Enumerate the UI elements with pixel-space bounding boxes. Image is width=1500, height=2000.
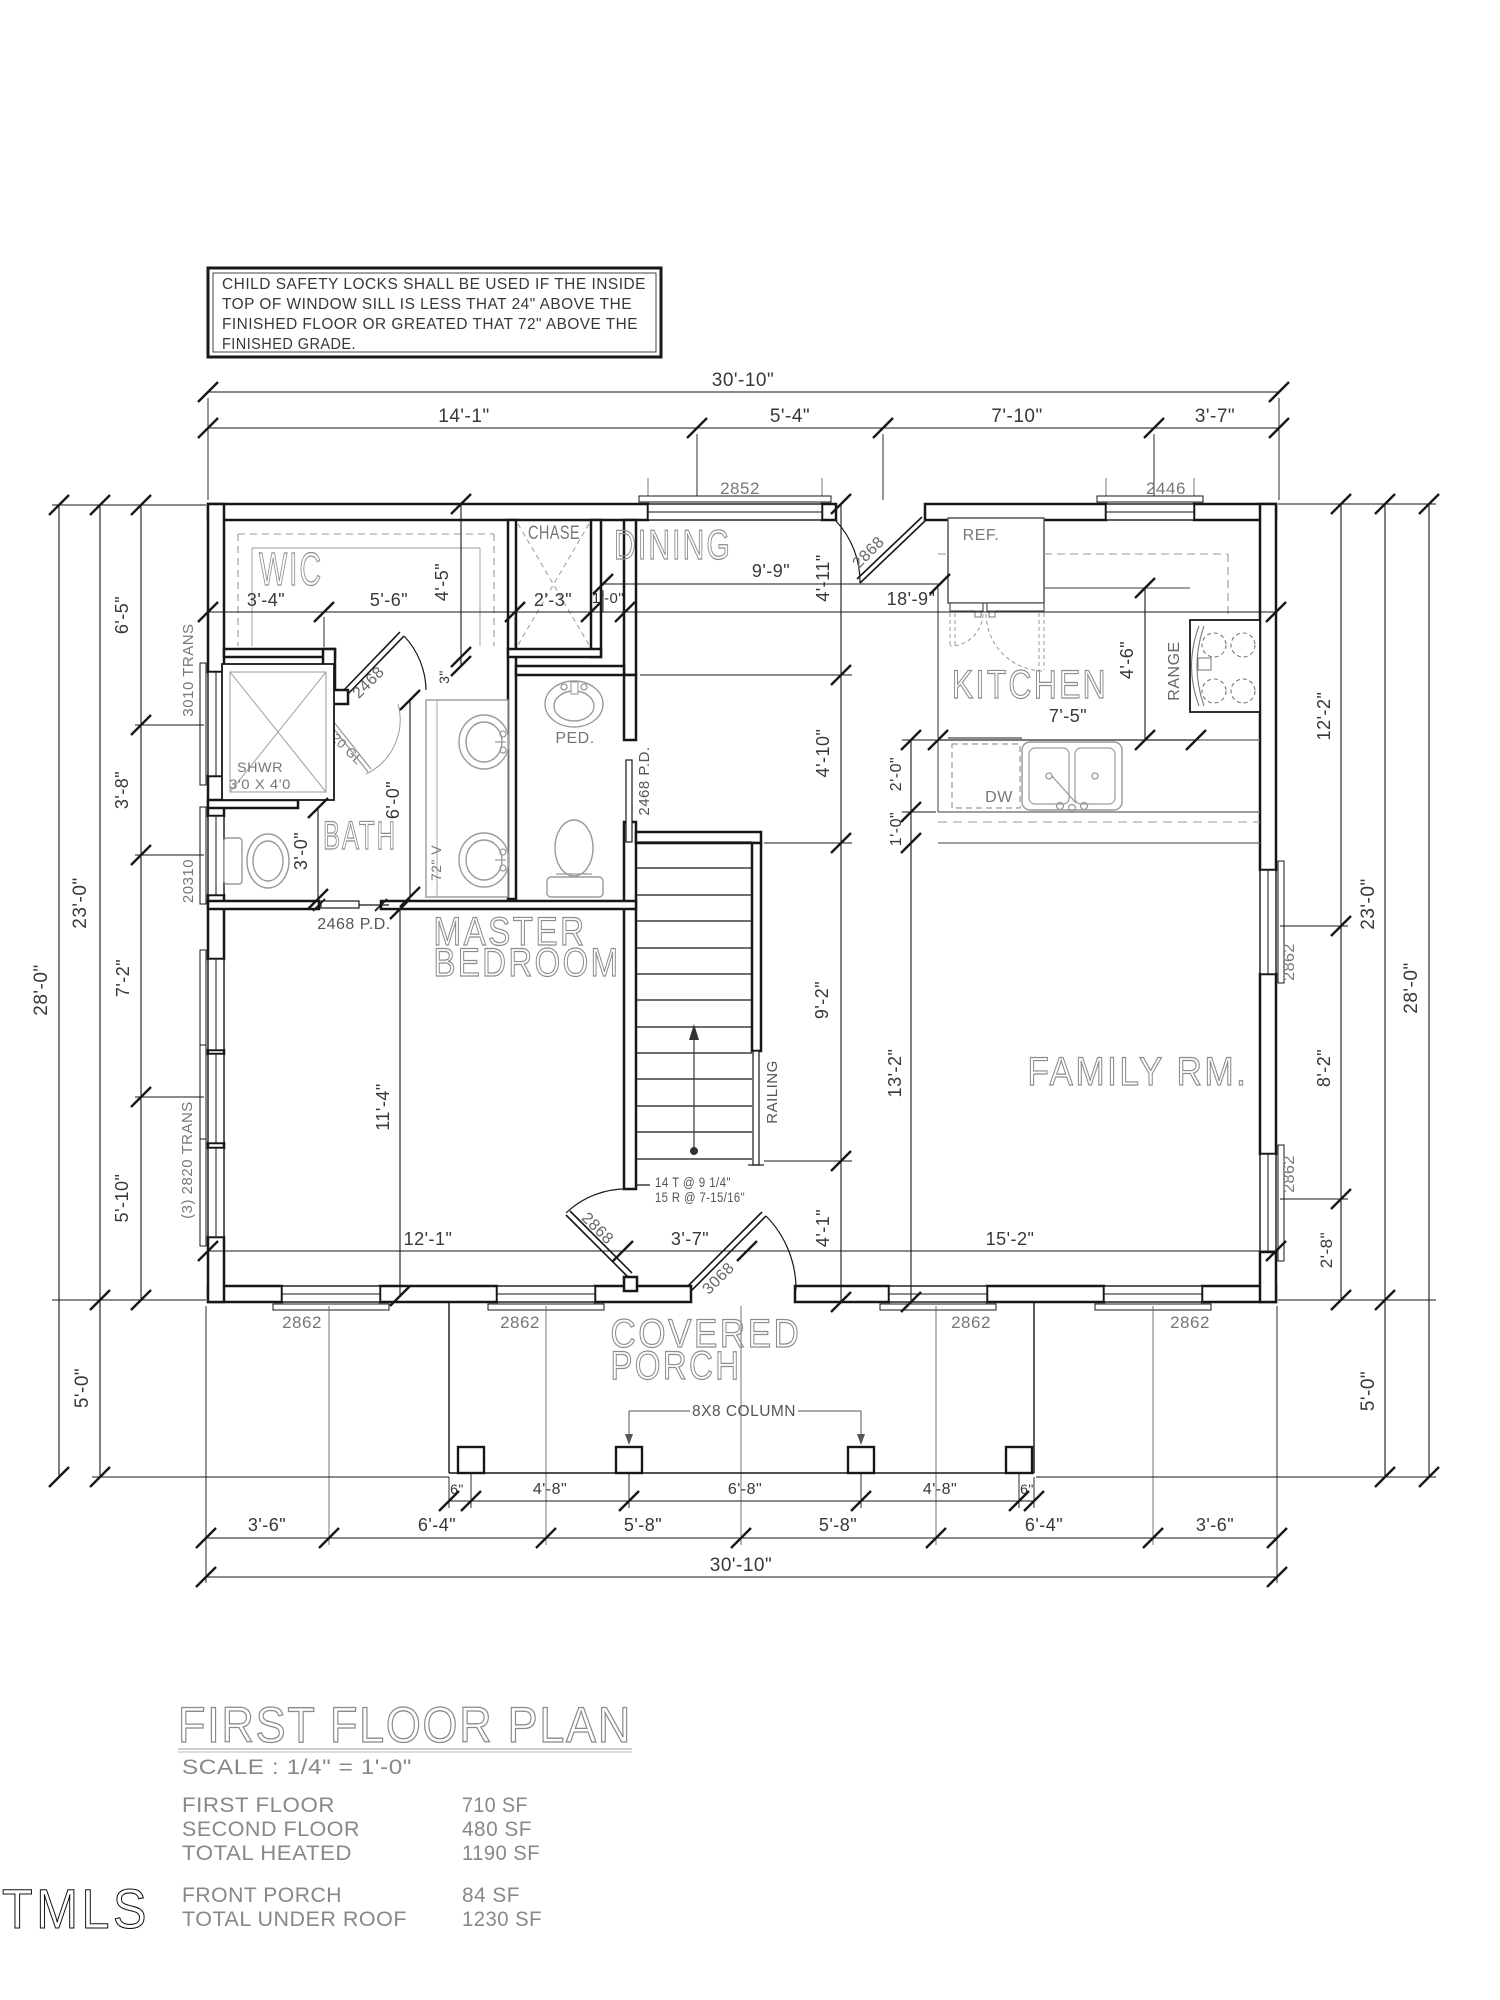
dimension 28-0 right — [1428, 504, 1430, 1477]
dimension string x911 2-0 1-0 13-2 — [910, 740, 912, 1302]
wall WIC bottom jog — [323, 649, 335, 692]
svg-text:2468 P.D.: 2468 P.D. — [317, 916, 391, 933]
svg-text:18'-9": 18'-9" — [887, 589, 936, 609]
extension lines for x841 string — [640, 674, 852, 676]
svg-text:15'-2": 15'-2" — [986, 1229, 1035, 1249]
porch column 3 — [848, 1447, 874, 1473]
vanity sink upper — [459, 715, 509, 769]
wall chase bottom — [508, 649, 601, 657]
svg-text:FIRST FLOOR PLAN: FIRST FLOOR PLAN — [178, 1697, 632, 1753]
window 2862 bottom wall 2 — [497, 1286, 595, 1302]
svg-text:1190 SF: 1190 SF — [462, 1842, 540, 1865]
window 3010 trans left wall — [208, 672, 224, 776]
stair note — [650, 1170, 756, 1206]
kitchen counter edge top — [1044, 587, 1190, 589]
svg-text:5'-10": 5'-10" — [112, 1174, 132, 1223]
svg-text:30'-10": 30'-10" — [712, 370, 774, 391]
svg-text:15 R @ 7-15/16": 15 R @ 7-15/16" — [655, 1189, 745, 1205]
wall dining west — [624, 520, 636, 675]
dimension string y1251 12-1 3-7 15-2 — [208, 1250, 1276, 1252]
svg-text:4'-11": 4'-11" — [813, 554, 833, 602]
WIC shelving dashed — [238, 533, 494, 535]
exterior wall left segments — [208, 504, 224, 672]
svg-text:FAMILY RM.: FAMILY RM. — [1028, 1050, 1249, 1094]
kitchen bar dashed — [938, 821, 1260, 823]
svg-text:KITCHEN: KITCHEN — [952, 663, 1108, 707]
svg-text:5'-4": 5'-4" — [770, 406, 810, 427]
svg-text:2862: 2862 — [1170, 1313, 1210, 1332]
svg-text:DINING: DINING — [614, 521, 732, 568]
svg-text:2446: 2446 — [1146, 479, 1186, 498]
pocket door 2468 powder wall — [626, 760, 632, 842]
window 2862 right wall lower — [1260, 1154, 1276, 1252]
porch column dimension line 6 4-8 6-8 4-8 6 — [449, 1500, 1034, 1502]
svg-text:1230 SF: 1230 SF — [462, 1908, 542, 1931]
svg-text:BEDROOM: BEDROOM — [434, 941, 621, 985]
svg-text:4'-8": 4'-8" — [923, 1481, 957, 1498]
extension lines right — [1278, 503, 1436, 505]
svg-text:BATH: BATH — [323, 814, 397, 858]
pedestal sink — [545, 681, 603, 727]
svg-text:3'-6": 3'-6" — [248, 1515, 286, 1535]
svg-text:23'-0": 23'-0" — [1358, 878, 1379, 929]
svg-text:FINISHED GRADE.: FINISHED GRADE. — [222, 336, 356, 353]
svg-text:4'-10": 4'-10" — [813, 729, 833, 778]
dimension 28-0 left — [58, 505, 60, 1477]
chase shaft cross — [518, 524, 589, 645]
svg-text:7'-2": 7'-2" — [113, 959, 133, 997]
window 2862 right wall upper — [1260, 870, 1276, 974]
svg-text:REF.: REF. — [963, 527, 1000, 544]
extension WIC dim ticks — [323, 617, 325, 647]
svg-text:9'-2": 9'-2" — [812, 981, 832, 1019]
svg-text:7'-10": 7'-10" — [991, 406, 1042, 427]
svg-text:5'-6": 5'-6" — [370, 590, 408, 610]
dishwasher — [952, 744, 1020, 808]
svg-text:2'-8": 2'-8" — [1317, 1232, 1336, 1268]
window 2862 bottom wall 1 — [282, 1286, 380, 1302]
dimension line top second row 14-1 / 5-4 / 7-10 / 3-7 — [208, 427, 1279, 429]
svg-text:28'-0": 28'-0" — [1401, 962, 1422, 1013]
kitchen island counter — [938, 739, 1260, 741]
refrigerator — [948, 518, 1044, 603]
svg-text:FRONT PORCH: FRONT PORCH — [182, 1884, 342, 1907]
porch column 4 — [1006, 1447, 1032, 1473]
svg-text:2862: 2862 — [500, 1313, 540, 1332]
door 2868 master bedroom — [566, 1189, 631, 1213]
svg-text:72" V: 72" V — [428, 845, 444, 881]
svg-text:3'-8": 3'-8" — [112, 771, 132, 809]
svg-text:8X8 COLUMN: 8X8 COLUMN — [692, 1403, 796, 1420]
svg-text:13'-2": 13'-2" — [885, 1049, 905, 1098]
window 2862 bottom wall 4 — [1104, 1286, 1202, 1302]
extension lines top — [207, 398, 209, 500]
wall chase right — [591, 520, 601, 657]
svg-text:SECOND FLOOR: SECOND FLOOR — [182, 1818, 360, 1841]
svg-text:710 SF: 710 SF — [462, 1794, 528, 1817]
svg-text:3": 3" — [436, 670, 452, 684]
dimension segments right 12-2 8-2 2-8 — [1340, 504, 1342, 1300]
svg-text:WIC: WIC — [259, 543, 323, 595]
kitchen double sink — [1022, 742, 1122, 810]
svg-text:3'-7": 3'-7" — [671, 1229, 709, 1249]
svg-text:9'-9": 9'-9" — [752, 561, 790, 581]
refrigerator door swings dashed — [949, 613, 951, 647]
extension lines left — [52, 504, 206, 506]
svg-text:SHWR: SHWR — [237, 759, 283, 775]
svg-text:DW: DW — [985, 789, 1013, 806]
porch column 2 — [616, 1447, 642, 1473]
svg-text:14'-1": 14'-1" — [438, 406, 489, 427]
svg-text:28'-0": 28'-0" — [31, 964, 52, 1015]
kitchen upper cabinets dashed — [938, 553, 948, 555]
WIC shelving inner — [252, 547, 480, 549]
dimension string y612 3-4 5-6 2-3 1-0 18-9 — [208, 611, 1276, 613]
shower enclosure — [222, 664, 334, 800]
svg-text:2862: 2862 — [1281, 943, 1298, 981]
bottom dimension 30-10 — [206, 1576, 1277, 1578]
wall stairs right — [752, 843, 761, 1051]
door 3068 front entry — [766, 1216, 796, 1290]
svg-text:(3) 2820 TRANS: (3) 2820 TRANS — [179, 1101, 196, 1219]
vanity counter — [426, 700, 508, 897]
svg-text:3'-6": 3'-6" — [1196, 1515, 1234, 1535]
svg-text:8'-2": 8'-2" — [1314, 1049, 1334, 1087]
svg-text:2862: 2862 — [282, 1313, 322, 1332]
dimension 30-10 top overall — [208, 391, 1279, 393]
svg-text:20310: 20310 — [180, 859, 197, 903]
dimension 7-5 kitchen — [938, 739, 1196, 741]
dimension 6-0 vanity vertical — [409, 700, 411, 897]
kitchen bar counter line — [938, 842, 1260, 844]
toilet bath — [224, 838, 242, 884]
svg-text:3'-4": 3'-4" — [247, 590, 285, 610]
svg-text:6'-4": 6'-4" — [1025, 1515, 1063, 1535]
note box border — [208, 268, 661, 357]
svg-text:1'-0": 1'-0" — [888, 812, 905, 846]
window 2820 trans left wall 3 — [208, 1148, 224, 1237]
svg-text:4'-1": 4'-1" — [813, 1209, 833, 1247]
vanity sink lower — [459, 833, 509, 887]
toilet powder — [547, 877, 603, 897]
range — [1190, 620, 1260, 712]
svg-text:12'-2": 12'-2" — [1314, 692, 1334, 741]
svg-text:6": 6" — [450, 1481, 464, 1497]
svg-text:RANGE: RANGE — [1166, 641, 1183, 700]
svg-text:30'-10": 30'-10" — [710, 1555, 772, 1576]
wall bath south right of pocket — [381, 901, 636, 909]
svg-text:CHASE: CHASE — [528, 523, 580, 544]
svg-text:2852: 2852 — [720, 479, 760, 498]
svg-text:4'-5": 4'-5" — [432, 563, 452, 601]
svg-text:23'-0": 23'-0" — [70, 877, 91, 928]
svg-text:2862: 2862 — [951, 1313, 991, 1332]
svg-text:TOP OF WINDOW SILL IS LESS THA: TOP OF WINDOW SILL IS LESS THAT 24" ABOV… — [222, 296, 632, 313]
shower glass door 20 GL — [330, 724, 368, 772]
svg-text:11'-4": 11'-4" — [373, 1083, 393, 1131]
svg-text:TOTAL UNDER ROOF: TOTAL UNDER ROOF — [182, 1908, 407, 1931]
window 2852 top wall — [648, 504, 822, 520]
svg-text:RAILING: RAILING — [764, 1060, 781, 1124]
svg-text:PORCH: PORCH — [611, 1344, 742, 1388]
wall powder east lower / stair west — [624, 822, 636, 1189]
svg-text:4'-8": 4'-8" — [533, 1481, 567, 1498]
svg-text:14 T @ 9 1/4": 14 T @ 9 1/4" — [655, 1174, 731, 1190]
exterior wall top segments — [208, 504, 648, 520]
wall stairs top — [636, 832, 761, 843]
svg-text:SCALE : 1/4" = 1'-0": SCALE : 1/4" = 1'-0" — [182, 1756, 412, 1779]
door 2868 top wall rear entry — [836, 521, 860, 583]
stair direction arrow — [693, 1034, 695, 1150]
dimension 11-4 master vertical — [399, 909, 401, 1296]
svg-text:12'-1": 12'-1" — [404, 1229, 453, 1249]
wall powder east upper — [624, 675, 636, 740]
window 2820 trans left wall 2 — [208, 1054, 224, 1143]
window 2446 top wall — [1106, 504, 1194, 520]
svg-text:2'-0": 2'-0" — [888, 757, 905, 791]
wall powder top — [516, 666, 624, 675]
svg-text:84 SF: 84 SF — [462, 1884, 520, 1907]
door 2468 WIC — [404, 636, 426, 690]
svg-text:3'-7": 3'-7" — [1195, 406, 1235, 427]
exterior wall right segments — [1260, 504, 1276, 870]
svg-text:TOTAL HEATED: TOTAL HEATED — [182, 1842, 352, 1865]
svg-text:3010 TRANS: 3010 TRANS — [180, 623, 197, 716]
svg-text:6'-0": 6'-0" — [383, 781, 403, 819]
svg-text:CHILD SAFETY LOCKS SHALL BE US: CHILD SAFETY LOCKS SHALL BE USED IF THE … — [222, 276, 646, 293]
svg-text:FIRST FLOOR: FIRST FLOOR — [182, 1794, 335, 1817]
svg-text:2862: 2862 — [1281, 1155, 1298, 1193]
svg-text:5'-8": 5'-8" — [624, 1515, 662, 1535]
svg-text:480 SF: 480 SF — [462, 1818, 532, 1841]
dimension 23-0 right and 5-0 porch — [1384, 504, 1386, 1477]
svg-text:6": 6" — [1020, 1481, 1034, 1497]
svg-text:2468 P.D.: 2468 P.D. — [636, 746, 653, 815]
window 2862 bottom wall 3 — [889, 1286, 987, 1302]
svg-text:PED.: PED. — [555, 730, 594, 747]
wall below shower — [208, 800, 298, 808]
dimension 3-0 bath vertical — [317, 808, 319, 899]
svg-text:2'-3": 2'-3" — [534, 590, 572, 610]
bottom dimension line 3-6 6-4 5-8 5-8 6-4 3-6 — [206, 1537, 1277, 1539]
dimension 23-0 left and 5-0 porch — [99, 505, 101, 1477]
window 20310 left wall — [208, 816, 224, 895]
svg-text:6'-8": 6'-8" — [728, 1481, 762, 1498]
svg-text:3'0 X 4'0: 3'0 X 4'0 — [229, 776, 291, 792]
dimension string x841 4-11 4-10 9-2 4-1 — [840, 504, 842, 1302]
stair treads — [637, 841, 752, 843]
exterior wall bottom segments — [208, 1286, 282, 1302]
porch column 1 — [458, 1447, 484, 1473]
wall bath south left of pocket — [208, 901, 319, 909]
svg-text:5'-0": 5'-0" — [1358, 1371, 1379, 1411]
dimension segments left 6-5 3-8 7-2 5-10 — [140, 505, 142, 1300]
svg-text:TMLS: TMLS — [2, 1877, 150, 1940]
svg-text:4'-6": 4'-6" — [1117, 641, 1137, 679]
stair railing — [753, 1051, 759, 1165]
bottom extension lines — [205, 1306, 207, 1583]
svg-text:5'-0": 5'-0" — [72, 1368, 93, 1408]
pocket door 2468 bath wall — [321, 901, 359, 908]
dimension 4-6 kitchen vertical — [1144, 588, 1146, 740]
dimension 4-5 and 3 WIC vertical — [460, 504, 462, 666]
wall WIC east / hall west — [508, 520, 516, 899]
window 2820 trans left wall 1 — [208, 959, 224, 1050]
svg-text:3'-0": 3'-0" — [291, 832, 311, 870]
svg-text:FINISHED FLOOR OR GREATED THAT: FINISHED FLOOR OR GREATED THAT 72" ABOVE… — [222, 316, 638, 333]
wall WIC bottom — [224, 649, 335, 657]
wall stub at entry — [624, 1277, 637, 1291]
svg-text:5'-8": 5'-8" — [819, 1515, 857, 1535]
porch slab outline — [448, 1302, 450, 1473]
dimension 9-9 dining — [603, 583, 940, 585]
svg-text:6'-5": 6'-5" — [112, 596, 132, 634]
svg-text:1'-0": 1'-0" — [592, 590, 624, 607]
svg-text:6'-4": 6'-4" — [418, 1515, 456, 1535]
svg-text:7'-5": 7'-5" — [1049, 706, 1087, 726]
